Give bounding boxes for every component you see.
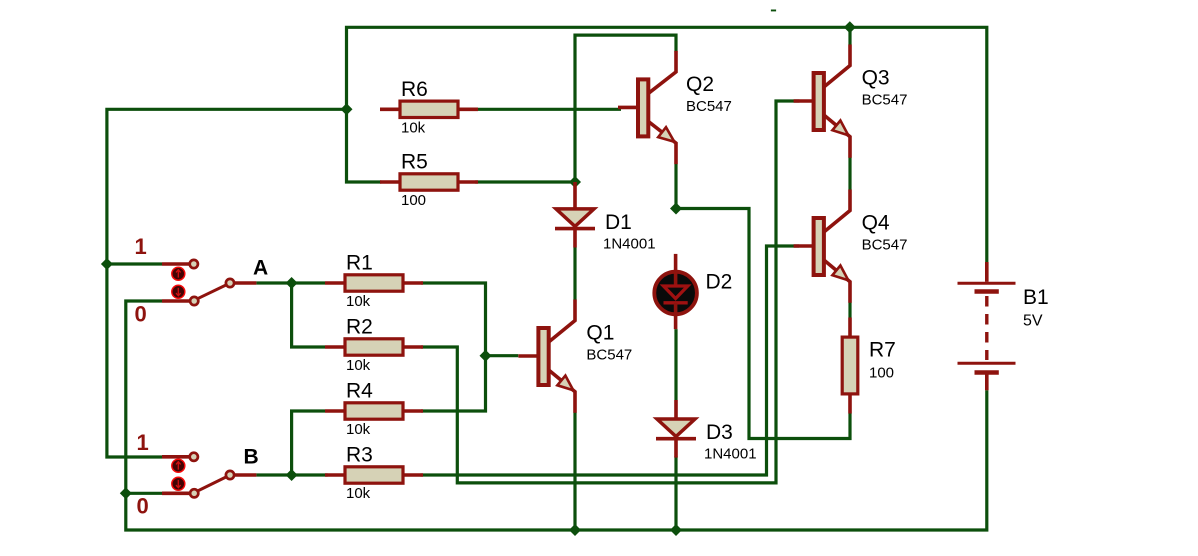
svg-text:Q4: Q4 [862,212,890,235]
switch A pole-1 pin [162,262,190,266]
resistor R2 right pin [403,345,423,349]
led D2 cathode pin [674,303,678,329]
transistor Q4 base pin [794,244,814,248]
transistor Q2 base pin [618,106,638,110]
wire Q4 emitter to R7 top [848,302,851,317]
diode D3 cathode bar [656,437,696,441]
led D2 cathode bar [664,301,688,304]
switch B contact 0 [190,489,198,497]
svg-text:BC547: BC547 [862,92,908,109]
wire R6 output to Q2 base [475,108,621,111]
wire horizontal y=109.3 + left vertical + switch B pole-1 [107,109,347,457]
svg-text:B: B [244,446,259,469]
junction R5/D1 [569,176,581,188]
switch A toggle down arrow [172,285,185,298]
resistor R5 right pin [458,180,478,184]
transistor Q1 base pin [518,354,538,358]
wire Q2 emitter to D2 node [674,164,677,209]
wire Q3 collector to top rail [848,27,851,45]
svg-text:BC547: BC547 [862,237,908,254]
transistor Q4 emitter pin [824,260,850,303]
svg-text:1N4001: 1N4001 [704,446,757,463]
svg-text:100: 100 [869,365,894,382]
wire switch A pole-0 + vertical x=125.8 + bottom rail + battery negative [126,301,987,530]
wire R4 left down to node B [292,411,325,475]
switch B common pin [234,473,257,477]
svg-text:R7: R7 [869,339,896,362]
battery B1 plate long bottom [958,362,1016,365]
svg-text:10k: 10k [346,485,371,502]
switch A common pin [234,281,257,285]
wire x=575 link + y=35.1 + Q2 collector stub [575,35,676,182]
resistor R7 body [842,337,858,394]
transistor Q3 collector pin [824,45,850,88]
transistor Q1 emitter pin [549,370,575,413]
transistor Q3 base bar [814,73,824,130]
svg-text:R3: R3 [346,444,373,467]
resistor R3 left pin [325,473,345,477]
svg-text:D2: D2 [706,271,733,294]
resistor R1 body [345,275,403,291]
svg-text:1: 1 [135,234,147,259]
svg-text:R6: R6 [401,78,428,101]
resistor R5 left pin [380,180,400,184]
switch B pivot contact [226,471,234,479]
resistor R3 right pin [403,473,423,477]
node A [286,277,298,289]
resistor R1 left pin [325,281,345,285]
resistor R7 bottom pin [848,394,852,414]
led D2 triangle [664,286,688,299]
wire switch A common to node A + R1 left [256,281,325,284]
wire R3 right + riser x=766.5 + Q4 base [421,246,800,475]
diode D1 cathode pin [573,229,577,248]
resistor R6 right pin [458,108,478,112]
transistor Q1 base bar [538,328,548,385]
svg-text:BC547: BC547 [686,98,732,115]
battery B1 plate long top [958,282,1016,285]
resistor R1 right pin [403,281,423,285]
junction Q1 emitter on bottom rail [569,524,581,536]
transistor Q3 base pin [794,99,814,103]
svg-text:D3: D3 [706,421,733,444]
svg-text:Q2: Q2 [686,73,714,96]
junction Q2 emitter / D2 [670,203,682,215]
wire switch B common to node B + R3 left [256,473,327,476]
svg-text:10k: 10k [346,421,371,438]
resistor R6 left pin [380,108,400,112]
svg-text:Q1: Q1 [586,322,614,345]
resistor R4 left pin [325,409,345,413]
switch B pole-1 pin [162,455,190,459]
wire Q1 emitter to bottom rail [573,412,576,530]
resistor R7 top pin [848,318,852,338]
resistor R2 body [345,339,403,355]
wire R1 right + vertical x=485.5 + R4 right [421,283,486,411]
switch B toggle up arrow [172,459,185,472]
svg-text:10k: 10k [346,357,371,374]
battery B1 dashed middle [985,296,988,360]
resistor R6 body [400,101,458,117]
resistor R5 body [400,174,458,190]
wire node A down to R2 left [292,283,325,347]
battery B1 positive pin [985,262,989,282]
switch B lever [197,477,227,492]
svg-text:10k: 10k [346,293,371,310]
transistor Q1 collector pin [549,300,575,343]
svg-text:R1: R1 [346,252,373,275]
diode D3 anode pin [674,400,678,419]
wire R2 right + drop x=457.3 + y=482.9 + riser x=776 + Q3 base [421,101,799,483]
svg-text:A: A [253,257,268,280]
switch B contact 1 [190,453,198,461]
wire Q3 emitter to Q4 collector [848,157,851,189]
net marker dash [771,10,776,12]
diode D1 body [556,209,594,227]
junction switch B pole-0 [120,487,132,499]
transistor Q4 emitter arrow [832,266,848,281]
switch A pole-0 pin [162,299,191,303]
junction R6 tap [341,103,353,115]
wire D3 cathode to bottom rail [674,456,677,530]
wire D1 cathode to Q1 collector [573,247,576,300]
battery B1 negative pin [985,373,989,391]
svg-text:0: 0 [137,494,149,519]
wire switch A pole-1 [107,262,162,265]
transistor Q2 emitter pin [648,121,676,164]
svg-text:10k: 10k [401,119,426,136]
switch B toggle down arrow [172,477,185,490]
diode D3 body [657,419,695,437]
node B [286,469,298,481]
diode D3 cathode pin [674,439,678,458]
junction Q1 base [480,350,492,362]
svg-text:100: 100 [401,192,426,209]
svg-text:1: 1 [137,430,149,455]
wire Q1 base [486,354,519,357]
wire R5 left + left drop + top rail + right drop to battery [347,27,987,262]
resistor R2 left pin [325,345,345,349]
switch A toggle up arrow [172,267,185,280]
svg-text:Q3: Q3 [862,67,890,90]
resistor R4 body [345,403,403,419]
junction Q3 collector on top rail [844,21,856,33]
svg-text:5V: 5V [1023,313,1043,330]
led D2 ring [654,272,697,315]
switch A pivot contact [226,279,234,287]
battery B1 plate short top [975,289,999,294]
battery B1 plate short bottom [975,370,999,375]
transistor Q3 emitter pin [824,115,850,158]
wire D2 node right + x=749 drop + y=438.5 + R7 bottom stub [676,209,850,439]
junction D3 on bottom rail [670,524,682,536]
transistor Q4 base bar [814,218,824,275]
switch B pole-0 pin [162,491,191,495]
svg-text:BC547: BC547 [586,347,632,364]
led D2 anode pin [674,254,678,286]
switch A contact 0 [190,297,198,305]
wire D2 cathode to D3 anode [674,329,677,400]
wire R5 right to D1 node [475,180,575,183]
svg-text:R5: R5 [401,151,428,174]
svg-text:1N4001: 1N4001 [603,235,656,252]
svg-text:B1: B1 [1023,286,1049,309]
transistor Q3 emitter arrow [832,121,848,136]
svg-text:D1: D1 [605,211,632,234]
resistor R4 right pin [403,409,423,413]
resistor R3 body [345,467,403,483]
junction switch A pole-1 [101,258,113,270]
wire switch B pole-0 [126,492,162,495]
svg-text:R2: R2 [346,316,373,339]
transistor Q2 collector pin [648,51,676,94]
svg-text:0: 0 [135,302,147,327]
transistor Q2 emitter arrow [658,127,674,142]
diode D1 anode pin [573,182,577,209]
switch A contact 1 [190,260,198,268]
diode D1 cathode bar [555,227,595,231]
svg-text:R4: R4 [346,380,373,403]
switch A lever [197,285,227,299]
transistor Q2 base bar [638,79,648,136]
transistor Q4 collector pin [824,190,850,233]
transistor Q1 emitter arrow [557,376,573,391]
